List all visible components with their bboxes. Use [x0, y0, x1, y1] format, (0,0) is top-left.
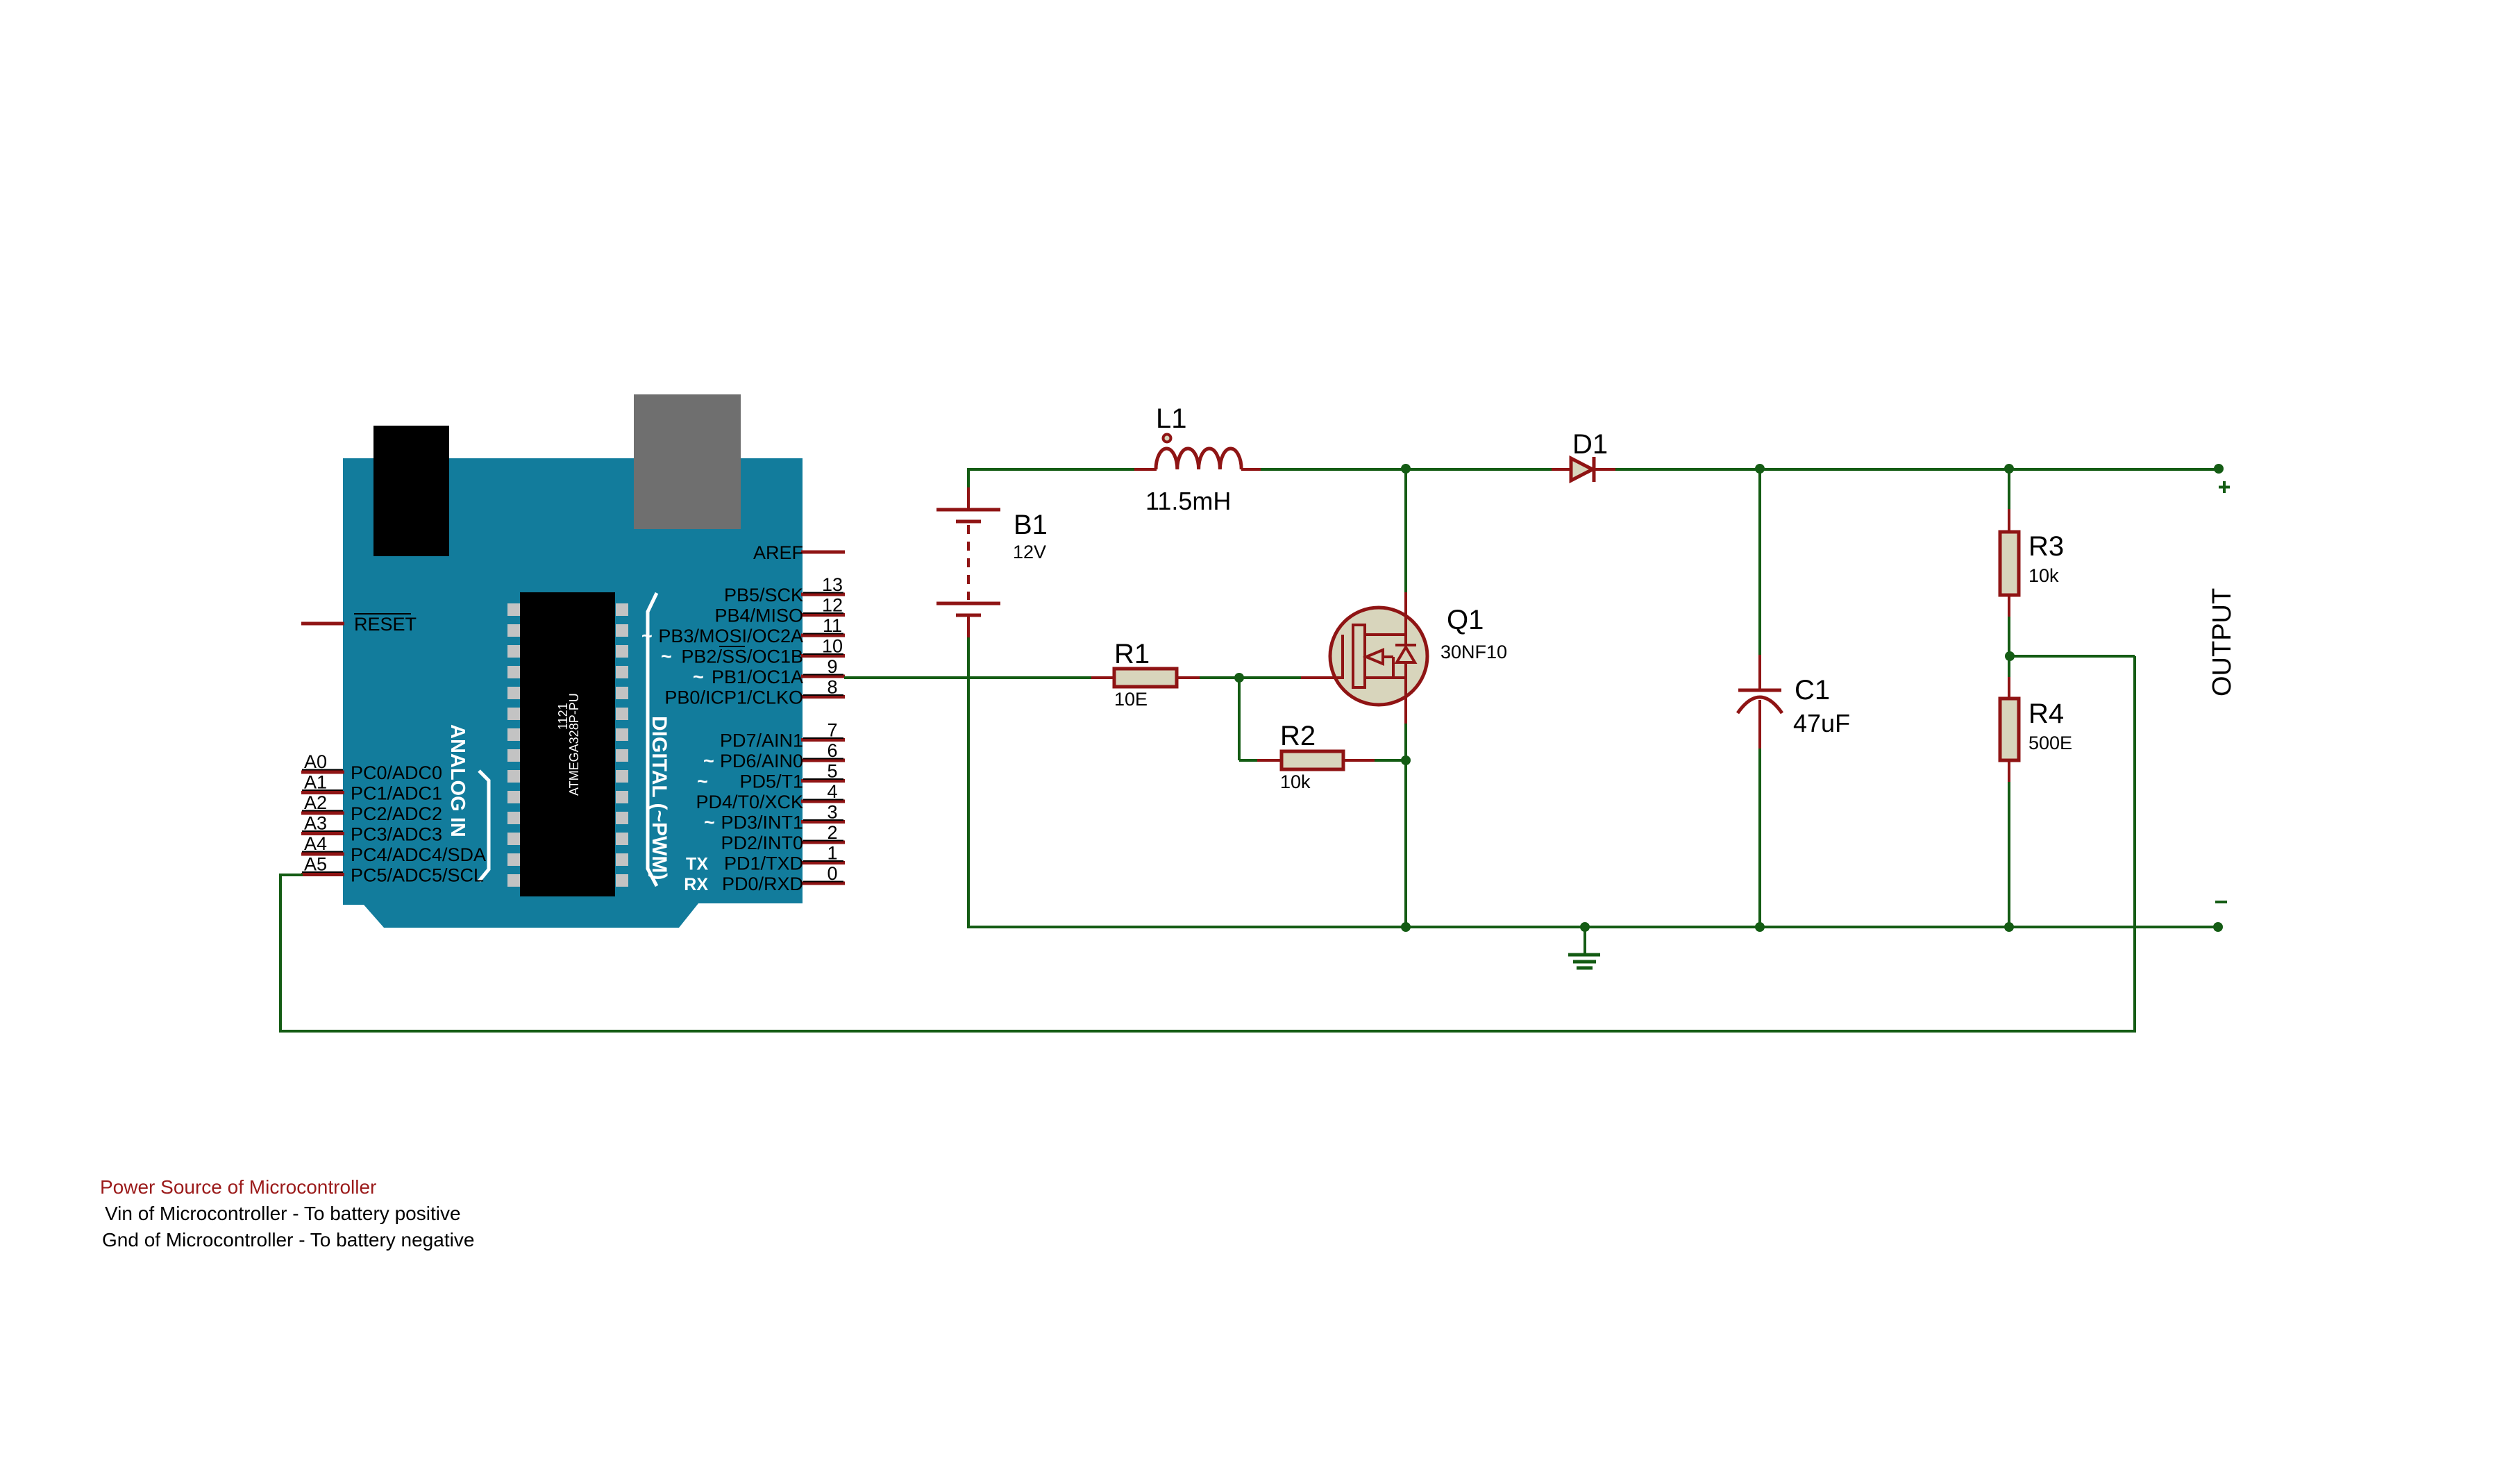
Q1 source stub [1365, 676, 1406, 679]
svg-text:~: ~ [697, 771, 708, 792]
svg-text:12V: 12V [1013, 542, 1046, 562]
wire: R2 right to source column [1373, 759, 1406, 762]
capacitor C1 leads [1758, 655, 1761, 689]
svg-text:PD7/AIN1: PD7/AIN1 [720, 730, 803, 751]
svg-text:ATMEGA328P-PU: ATMEGA328P-PU [567, 693, 581, 796]
svg-text:~: ~ [641, 626, 653, 646]
svg-text:8: 8 [827, 677, 837, 698]
svg-text:PB4/MISO: PB4/MISO [714, 605, 803, 626]
inductor polarity dot [1164, 435, 1171, 442]
pin PB3/MOSI/OC2A stub [801, 634, 845, 637]
svg-text:30NF10: 30NF10 [1440, 642, 1507, 662]
chip pins [507, 603, 520, 616]
wire: top rail battery to L1 [968, 468, 1136, 471]
svg-text:47uF: 47uF [1793, 709, 1850, 737]
wire: source down to rail [1404, 722, 1407, 928]
svg-text:PD3/INT1: PD3/INT1 [721, 812, 803, 833]
svg-text:7: 7 [827, 720, 837, 741]
output - sign [2215, 901, 2227, 903]
pin PD1/TXD stub [801, 861, 845, 864]
svg-text:R3: R3 [2028, 531, 2064, 562]
wire: junction down to R2 level [1238, 676, 1241, 760]
svg-text:3: 3 [827, 802, 837, 823]
svg-text:PC5/ADC5/SCL: PC5/ADC5/SCL [351, 865, 484, 886]
node R3 top junction [2004, 464, 2014, 474]
svg-text:PC1/ADC1: PC1/ADC1 [351, 783, 442, 804]
svg-text:Q1: Q1 [1447, 605, 1484, 635]
Arduino Uno board body U1 [343, 458, 803, 928]
Q1 body diode bar [1395, 644, 1416, 646]
wire: R3 bottom to fb junction [2008, 615, 2010, 678]
svg-text:ANALOG IN: ANALOG IN [446, 724, 469, 837]
diode D1 leads [1552, 468, 1572, 471]
node C1 top junction [1755, 464, 1765, 474]
resistor R4 leads [2008, 677, 2010, 699]
pin A5 stub [301, 873, 344, 876]
svg-text:D1: D1 [1572, 429, 1608, 460]
USB connector [634, 394, 741, 529]
pin A0 stub [301, 771, 344, 774]
svg-text:12: 12 [822, 595, 843, 616]
resistor R1 body [1114, 669, 1177, 687]
svg-text:DIGITAL (~PWM): DIGITAL (~PWM) [648, 716, 671, 880]
pin PD7/AIN1 stub [801, 738, 845, 742]
svg-text:9: 9 [827, 656, 837, 677]
ANALOG IN bracket [479, 771, 489, 881]
svg-text:PB1/OC1A: PB1/OC1A [712, 667, 803, 687]
diode D1 cathode bar [1593, 457, 1596, 482]
svg-text:PB2/SS/OC1B: PB2/SS/OC1B [681, 646, 803, 667]
pin PD3/INT1 stub [801, 820, 845, 824]
svg-text:6: 6 [827, 740, 837, 761]
svg-text:Power Source of Microcontrolle: Power Source of Microcontroller [100, 1176, 376, 1198]
pin PD0/RXD stub [801, 882, 845, 885]
svg-text:AREF: AREF [753, 542, 803, 563]
svg-text:A2: A2 [304, 792, 327, 813]
svg-text:PB5/SCK: PB5/SCK [724, 585, 803, 605]
svg-text:11.5mH: 11.5mH [1145, 487, 1231, 515]
svg-text:PD0/RXD: PD0/RXD [722, 874, 803, 894]
svg-text:RX: RX [684, 875, 708, 894]
svg-text:10: 10 [822, 636, 843, 657]
pin PB0/ICP1/CLKO stub [801, 695, 845, 699]
wire: R4 bottom to rail [2008, 780, 2010, 928]
wire: top rail D1 to + terminal [1614, 468, 2219, 471]
Q1 drain stub [1365, 633, 1406, 636]
svg-text:B1: B1 [1014, 510, 1048, 540]
svg-text:2: 2 [827, 822, 837, 843]
node ground junction [1580, 922, 1590, 932]
svg-text:A5: A5 [304, 854, 327, 875]
pin A4 stub [301, 853, 344, 856]
svg-text:C1: C1 [1795, 675, 1830, 705]
svg-text:10k: 10k [1280, 771, 1311, 792]
capacitor C1 curved plate [1738, 697, 1782, 713]
svg-text:A0: A0 [304, 751, 327, 772]
svg-text:A1: A1 [304, 772, 327, 793]
wire: C1 bottom [1758, 748, 1761, 928]
battery B1 [967, 487, 970, 510]
svg-text:PC3/ADC3: PC3/ADC3 [351, 824, 442, 845]
transistor Q1 body circle [1330, 608, 1427, 705]
pin A1 stub [301, 791, 344, 794]
pin PB4/MISO stub [801, 613, 845, 617]
wire: feedback up to A5 [279, 875, 282, 1033]
Q1 drain lead [1404, 592, 1407, 646]
wire: bottom ground rail [967, 926, 2218, 928]
wire: feedback to A5 stub [279, 874, 303, 876]
node feedback junction [2005, 651, 2015, 661]
svg-text:PB0/ICP1/CLKO: PB0/ICP1/CLKO [664, 687, 803, 708]
svg-text:10E: 10E [1114, 689, 1148, 710]
svg-text:4: 4 [827, 781, 837, 802]
wire: feedback junction right [2010, 655, 2135, 658]
svg-text:PD6/AIN0: PD6/AIN0 [720, 751, 803, 771]
node R4 bottom junction [2004, 922, 2014, 932]
pin A3 stub [301, 832, 344, 835]
svg-text:~: ~ [704, 812, 715, 833]
DIGITAL bracket [648, 593, 657, 886]
node source-ground junction [1401, 922, 1411, 932]
wire: R3 top [2008, 469, 2010, 510]
output + sign [2223, 481, 2226, 493]
svg-text:10k: 10k [2028, 565, 2059, 586]
svg-text:PC4/ADC4/SDA: PC4/ADC4/SDA [351, 844, 486, 865]
pin PD5/T1 stub [801, 779, 845, 783]
svg-text:PD2/INT0: PD2/INT0 [721, 833, 803, 853]
svg-text:1: 1 [827, 843, 837, 864]
diode D1 triangle [1571, 458, 1593, 481]
RESET pin [301, 622, 344, 626]
svg-text:A4: A4 [304, 833, 327, 854]
svg-text:~: ~ [703, 751, 714, 771]
Q1 body diode triangle [1397, 647, 1415, 662]
pin PD2/INT0 stub [801, 841, 845, 844]
node C1 bottom junction [1755, 922, 1765, 932]
svg-text:5: 5 [827, 761, 837, 782]
svg-text:PD4/T0/XCK: PD4/T0/XCK [696, 792, 803, 812]
terminal output- [2213, 922, 2223, 932]
resistor R2 body [1282, 751, 1343, 769]
svg-text:RESET: RESET [354, 614, 417, 635]
Q1 channel bar [1353, 625, 1365, 687]
svg-text:PB3/MOSI/OC2A: PB3/MOSI/OC2A [658, 626, 803, 646]
inductor L1 leads [1134, 468, 1157, 471]
svg-text:R4: R4 [2028, 699, 2064, 729]
svg-text:Vin of Microcontroller - To ba: Vin of Microcontroller - To battery posi… [105, 1203, 461, 1224]
ATMEGA328P chip U1 [520, 592, 615, 896]
svg-text:PC2/ADC2: PC2/ADC2 [351, 803, 442, 824]
resistor R2 leads [1257, 759, 1282, 762]
wire: battery bottom vertical [967, 636, 970, 928]
wire: R1 to gate junction [1198, 676, 1302, 679]
power jack connector [373, 426, 449, 556]
Q1 source lead inside [1404, 662, 1407, 724]
Q1 gate lead [1301, 676, 1344, 679]
svg-text:R1: R1 [1114, 639, 1150, 669]
svg-text:TX: TX [686, 855, 708, 874]
svg-text:A3: A3 [304, 813, 327, 834]
pin PB5/SCK stub [801, 593, 845, 596]
pin AREF stub [801, 551, 845, 554]
resistor R4 body [2000, 699, 2019, 760]
wire: feedback bottom rail [280, 1030, 2136, 1033]
inductor L1 coil [1156, 449, 1241, 469]
wire: drain junction down [1404, 469, 1407, 594]
svg-text:PD1/TXD: PD1/TXD [724, 853, 803, 874]
svg-text:500E: 500E [2028, 733, 2072, 753]
ground [1584, 927, 1586, 955]
SS overline [719, 646, 745, 647]
svg-text:L1: L1 [1156, 403, 1187, 434]
svg-text:~: ~ [693, 667, 704, 687]
wire: battery top vertical [967, 468, 970, 489]
svg-text:~: ~ [661, 646, 672, 667]
svg-text:Gnd of Microcontroller - To ba: Gnd of Microcontroller - To battery nega… [102, 1229, 474, 1251]
wire: to R2 left lead [1239, 759, 1259, 762]
node R2-source junction [1401, 755, 1411, 765]
svg-text:13: 13 [822, 574, 843, 595]
resistor R3 leads [2008, 509, 2010, 532]
wire: feedback down [2133, 656, 2136, 1033]
capacitor C1 top plate [1738, 689, 1781, 692]
terminal output+ [2214, 464, 2224, 474]
pin PB1/OC1A stub [801, 675, 845, 678]
wire: gate wire pin9 to R1 [844, 676, 1093, 679]
pin PD6/AIN0 stub [801, 759, 845, 762]
pin PD4/T0/XCK stub [801, 800, 845, 803]
Q1 arrow head [1366, 650, 1383, 664]
resistor R3 body [2000, 532, 2019, 595]
Q1 arrow branch [1392, 657, 1395, 679]
Q1 gate bar [1341, 635, 1344, 679]
svg-text:11: 11 [823, 615, 842, 636]
pin PB2/SS/OC1B stub [801, 654, 845, 658]
svg-text:R2: R2 [1280, 721, 1316, 751]
wire: C1 top [1758, 469, 1761, 656]
node gate junction [1234, 673, 1244, 683]
svg-text:0: 0 [827, 863, 837, 884]
svg-text:PD5/T1: PD5/T1 [739, 771, 803, 792]
svg-text:OUTPUT: OUTPUT [2208, 588, 2237, 696]
resistor R1 leads [1091, 676, 1114, 679]
svg-text:PC0/ADC0: PC0/ADC0 [351, 762, 442, 783]
wire: top rail L1 to D1 [1259, 468, 1553, 471]
pin A2 stub [301, 812, 344, 815]
node drain junction [1401, 464, 1411, 474]
